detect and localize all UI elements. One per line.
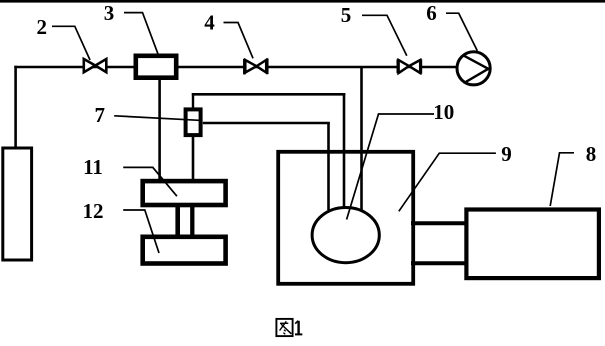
svg-text:6: 6 <box>426 1 437 25</box>
svg-text:11: 11 <box>83 155 103 179</box>
svg-text:7: 7 <box>94 103 105 127</box>
svg-text:10: 10 <box>433 100 454 124</box>
svg-text:5: 5 <box>341 3 352 27</box>
svg-text:4: 4 <box>204 11 215 35</box>
svg-text:8: 8 <box>586 142 597 166</box>
svg-text:2: 2 <box>36 15 47 39</box>
svg-text:12: 12 <box>83 199 104 223</box>
svg-text:9: 9 <box>501 142 512 166</box>
svg-text:3: 3 <box>104 1 115 25</box>
